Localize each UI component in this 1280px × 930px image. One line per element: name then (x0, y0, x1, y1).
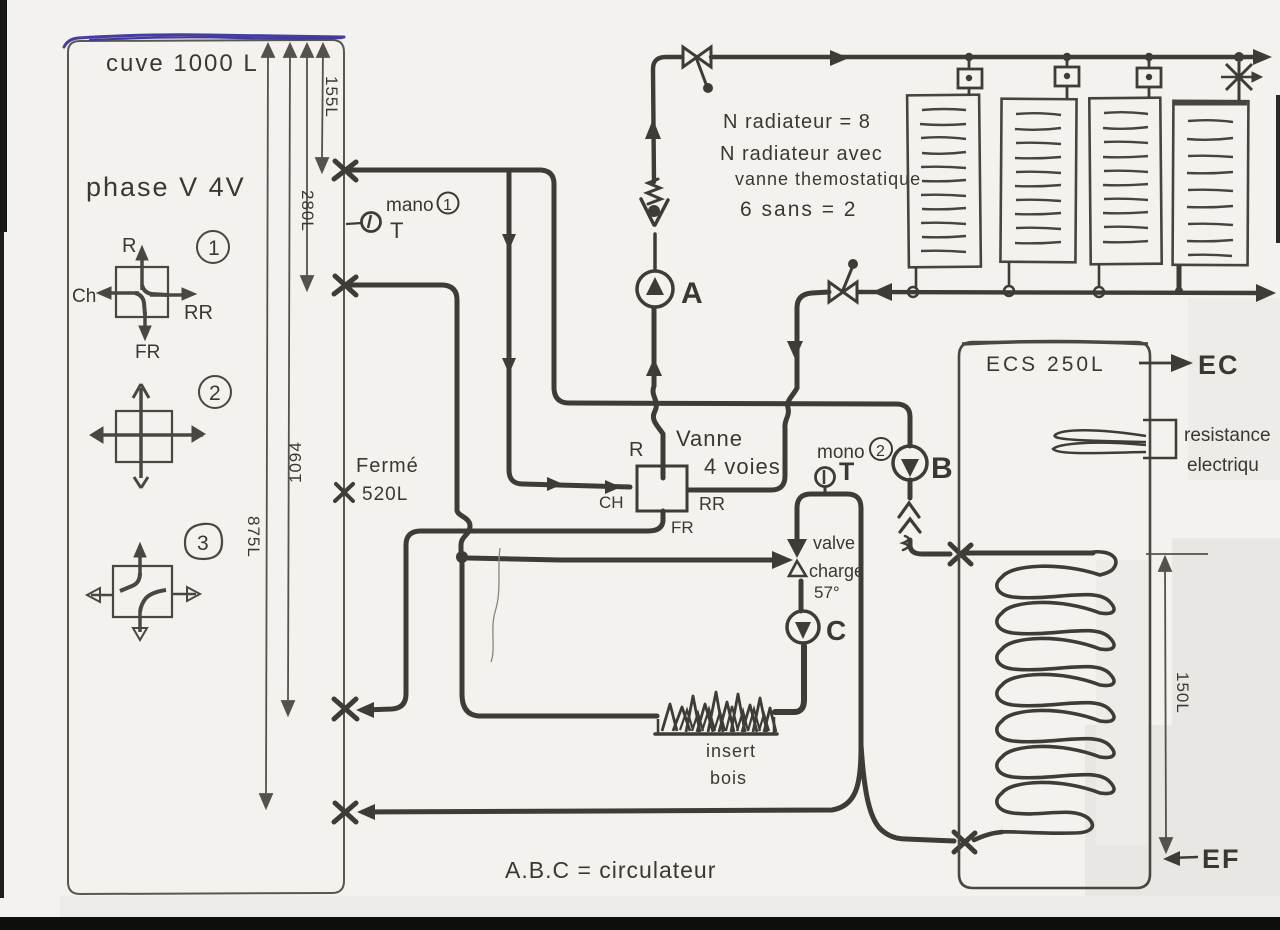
svg-text:FR: FR (671, 518, 694, 537)
EC outlet arrow (1139, 362, 1173, 365)
svg-text:insert: insert (706, 741, 756, 761)
pipe: tank X285 down with hop to junction (345, 285, 470, 551)
pump A (637, 271, 673, 307)
svg-text:Ch: Ch (72, 286, 96, 307)
flow arrow up on riser (645, 119, 661, 139)
flow arrow into valve charge (772, 551, 793, 569)
arrow at right end of supply (1253, 49, 1272, 65)
bowtie valve on return (829, 282, 857, 302)
radiator 1 thermostatic head (958, 61, 982, 96)
svg-text:A: A (681, 277, 703, 310)
svg-text:EF: EF (1202, 844, 1241, 874)
blue water level line on tank top (64, 35, 344, 47)
return junction dots (908, 287, 918, 297)
pipe: valve charge up and loop over to right leg (363, 494, 861, 812)
svg-text:1: 1 (208, 237, 220, 260)
bowtie valve on supply (683, 47, 711, 67)
radiator 3 bottom stub (1098, 264, 1101, 288)
svg-text:B: B (931, 452, 953, 485)
svg-text:FR: FR (135, 342, 160, 363)
svg-text:vanne themostatique: vanne themostatique (735, 169, 921, 189)
flow arrow right on CH line (547, 477, 563, 491)
return arrow right end (1256, 284, 1276, 302)
svg-text:Vanne: Vanne (676, 426, 743, 451)
radiator 4 (1173, 101, 1249, 265)
valve cross X on ECS coil top 554 (950, 544, 971, 564)
circled 3 (185, 524, 222, 559)
pipe: R port up through squiggle to pump A (653, 309, 663, 478)
radiator 1 bottom stub (915, 267, 918, 289)
svg-text:875L: 875L (244, 516, 263, 558)
pipe: up from vent to top line (653, 57, 681, 182)
insert bois hearth (655, 732, 777, 736)
svg-text:T: T (839, 458, 854, 486)
svg-text:1094: 1094 (286, 441, 305, 483)
pipe: junction to valve charge (468, 558, 778, 560)
svg-text:155L: 155L (322, 76, 341, 118)
svg-text:N radiateur = 8: N radiateur = 8 (723, 111, 871, 133)
air vent above pump A (653, 234, 657, 270)
flow arrow left at tank X812 (357, 804, 375, 820)
4-way valve square (637, 466, 687, 511)
svg-text:R: R (629, 439, 643, 461)
dimension arrow 1094 (282, 44, 296, 715)
tank cuve 1000L outline (68, 40, 344, 894)
dimension arrow 280L (301, 44, 313, 290)
pipe: FR port to tank X708 (362, 511, 663, 710)
svg-text:phase V 4V: phase V 4V (86, 172, 246, 202)
scan black right sliver (1276, 95, 1280, 243)
stray pencil line (491, 548, 500, 662)
svg-text:ECS 250L: ECS 250L (986, 353, 1106, 376)
radiator 4 manual valve star (1221, 62, 1262, 101)
EF arrow (1170, 857, 1198, 858)
insert bois flames (662, 692, 776, 732)
return flow arrow pointing left (872, 283, 892, 301)
radiator 2 thermostatic head (1055, 61, 1079, 99)
valve cross X on tank at 812 (334, 803, 356, 822)
svg-text:CH: CH (599, 493, 624, 512)
svg-text:2: 2 (209, 382, 221, 405)
circled 2 (199, 376, 231, 408)
svg-text:N radiateur avec: N radiateur avec (720, 143, 883, 165)
valve cross X fermé at 492 (335, 484, 353, 501)
svg-text:charge: charge (809, 561, 864, 581)
svg-text:mano: mano (386, 195, 434, 216)
valve cross X on tank at 285 (334, 276, 356, 295)
pipe: pump B down to ECS coil top (910, 480, 950, 554)
svg-text:EC: EC (1198, 350, 1240, 380)
radiator 3 thermostatic head (1137, 61, 1161, 98)
valve charge symbol (787, 539, 807, 558)
grey wash bottom strip (60, 896, 1280, 917)
pipe: return down to RR port (689, 292, 829, 490)
svg-text:A.B.C = circulateur: A.B.C = circulateur (505, 857, 716, 883)
ECS tank outline (959, 342, 1150, 888)
scan black bottom bar (0, 917, 1280, 930)
scan black left edge (0, 0, 7, 232)
dimension arrow 875L (260, 44, 274, 808)
svg-text:520L: 520L (362, 484, 408, 505)
pump B (893, 446, 927, 480)
radiator return header (858, 292, 1264, 293)
grey wash right band (1172, 538, 1280, 745)
pipe: coil bottom to X (974, 832, 1002, 840)
check valve below pump B (899, 503, 920, 550)
radiator 2 bottom stub (1008, 262, 1011, 287)
pipe: loop right leg branch to ECS coil bottom (861, 745, 954, 841)
V4V symbol 1 square (97, 246, 196, 340)
dimension 150L (1146, 554, 1208, 852)
flow arrow on supply header (830, 50, 849, 66)
svg-text:3: 3 (197, 532, 209, 555)
junction node dot (456, 551, 468, 563)
pipe: radiator supply header (711, 55, 1266, 59)
pipe: tank top X to pump B via y404 (345, 170, 910, 446)
grey wash coil area (1096, 560, 1148, 845)
svg-text:RR: RR (699, 494, 725, 514)
svg-text:150L: 150L (1173, 672, 1192, 714)
svg-text:2: 2 (876, 443, 885, 460)
ECS tank top edge doubled (962, 342, 1148, 345)
valve cross X on tank at 170 (334, 161, 356, 180)
radiator 3 (1089, 98, 1161, 265)
V4V symbol 3 square (87, 543, 200, 640)
svg-text:resistance: resistance (1184, 425, 1271, 446)
valve cross X on tank at 708 (334, 699, 357, 719)
grey wash bottom right (1085, 725, 1280, 917)
svg-text:C: C (826, 615, 846, 646)
V4V symbol 2 square (90, 384, 205, 488)
svg-text:1: 1 (443, 197, 452, 214)
svg-text:6 sans = 2: 6 sans = 2 (740, 198, 857, 221)
thermometer mono T (816, 468, 835, 487)
pipe: junction down to insert bois (462, 563, 657, 716)
ECS coil (997, 552, 1116, 833)
circled 1 (197, 231, 229, 263)
pipe: insert bois up to pump C (775, 646, 804, 712)
flow arrow left into tank X708 (356, 702, 374, 718)
electric heating element (1055, 430, 1146, 442)
flow arrow right into CH (605, 480, 621, 494)
valve cross X on ECS coil bottom 842 (954, 832, 975, 852)
svg-text:57°: 57° (814, 583, 840, 602)
svg-text:4 voies: 4 voies (704, 454, 781, 479)
svg-text:280L: 280L (298, 190, 317, 232)
svg-text:T: T (390, 218, 403, 243)
flow arrow down on CH branch 2 (502, 358, 516, 374)
svg-text:Fermé: Fermé (356, 455, 419, 477)
mano gauge (362, 213, 381, 232)
grey wash right mid (1188, 298, 1280, 480)
junction dots on supply header (965, 53, 973, 61)
svg-text:R: R (122, 235, 136, 257)
pipe: pump C up to valve charge (799, 581, 804, 611)
svg-text:valve: valve (813, 533, 855, 553)
flow arrow down on CH branch (502, 234, 516, 250)
svg-text:cuve 1000 L: cuve 1000 L (106, 50, 259, 77)
pump C (787, 611, 819, 643)
radiator 4 bottom stub (1177, 265, 1182, 288)
radiator 2 (1000, 99, 1076, 263)
pipe: branch to CH port (509, 171, 630, 487)
flow arrow up to pump A (646, 358, 662, 376)
flow arrow down on return drop (787, 341, 803, 359)
svg-text:RR: RR (184, 302, 213, 324)
dimension arrow 155L (316, 44, 329, 172)
svg-text:bois: bois (710, 768, 747, 788)
radiator 1 (907, 95, 981, 268)
svg-text:electriqu: electriqu (1187, 455, 1259, 476)
